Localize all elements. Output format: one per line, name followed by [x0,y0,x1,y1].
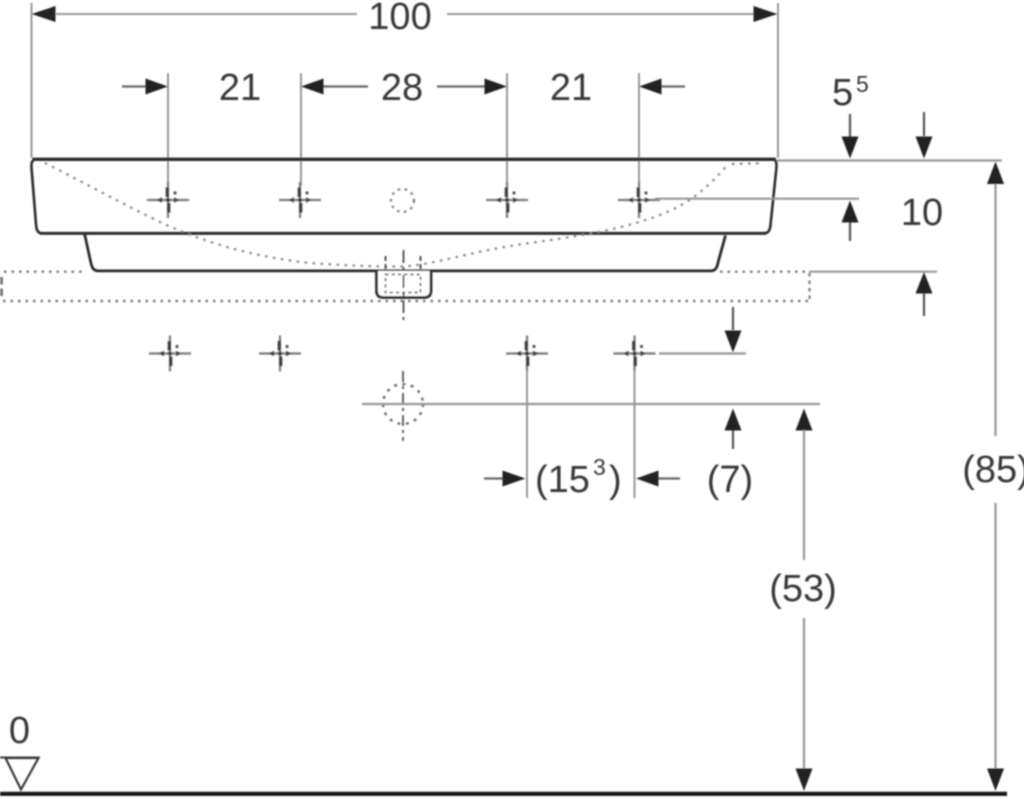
mounting level dotted line y=301 [3,300,810,302]
drain hole lower config: vertical centre line [402,371,404,441]
dimension 5.5: upper arrow pointing down [849,114,851,137]
basin: interior bowl profile tail along rim (right) [732,162,762,165]
dimension 21/28/21: extension line at x=168 [167,73,169,186]
tap hole cross 1 (lower row) [149,336,191,372]
svg-text:3: 3 [593,454,606,480]
dimension 100: left extension line [31,3,33,158]
zero level marker line [0,757,40,759]
tap hole cross 4 (upper row) [618,182,660,218]
basin: lower tier outline [85,234,726,271]
svg-text:5: 5 [832,72,853,114]
tap hole cross 2 (upper row) [279,182,321,218]
svg-text:100: 100 [368,0,431,38]
svg-text:10: 10 [901,192,943,234]
dimension (53): line lower segment [803,618,805,769]
svg-text:): ) [609,459,622,501]
dimension (15_3): right arrow pointing left with tail [658,477,680,479]
svg-text:5: 5 [856,71,869,97]
basin: first tier bottom edge [40,232,766,235]
tap hole cross 2 (lower row) [259,336,301,372]
reference line through drain hole centre y=404 [362,403,820,405]
svg-text:21: 21 [219,67,261,109]
mounting level dotted line y=272 right segment [720,271,809,273]
floor line [0,792,1007,796]
dimension 5.5: lower arrow pointing up [849,222,851,241]
dimension (53): top arrow pointing up [796,409,813,431]
dimension 10: lower arrow pointing up [923,293,925,316]
dimension (85): top arrow pointing up [987,162,1004,185]
dimension 21/28/21: extension line at x=301 [300,73,302,186]
reference line at mounting level y=271.7 (right) [809,271,937,273]
dimension (53): bottom arrow pointing down [796,769,813,792]
dimension 28: left arrow pointing left with tail [323,85,368,87]
dimension (85): line upper segment [994,184,996,436]
drain: outlet box [377,271,432,298]
dimension 100: dimension line right segment [447,13,754,15]
svg-text:28: 28 [381,67,423,109]
reference line at tap hole level y=198.7 [655,198,859,200]
mounting level dotted line y=272 left segment [4,271,86,273]
dimension 21/28/21: extension line at x=639 [638,73,640,186]
dimension (7): upper arrow pointing down [732,307,734,330]
basin: right side edge [765,160,776,233]
svg-text:(15: (15 [535,459,590,501]
extension line below lower cross 3 [526,370,528,498]
overflow hole (dashed circle, upper) [391,189,414,212]
drain: centre line [403,250,405,320]
svg-text:(85): (85) [962,449,1024,491]
dimension 21 left: arrow pointing right with tail [122,85,147,87]
tap hole cross 4 (lower row) [614,336,656,372]
dimension (85): line lower segment [994,503,996,769]
dimension (15_3): left arrow pointing right with tail [484,477,503,479]
dimension 21/28/21: extension line at x=507 [506,73,508,186]
dimension 28: right arrow pointing right with tail [437,85,485,87]
drain: hidden dashed sides above outlet [385,256,387,269]
svg-text:0: 0 [9,710,30,752]
zero level marker triangle [6,758,39,790]
tap hole cross 3 (upper row) [486,182,528,218]
dimension (85): bottom arrow pointing down [987,769,1004,792]
reference line at rim level y=160 (right) [777,159,1002,161]
dimension (53): line upper segment [803,430,805,560]
basin: left side edge [31,160,41,233]
reference line from lower cross 4 to the right y=353.5 [659,352,746,354]
basin: interior bowl profile (hidden line) [45,163,727,267]
drain hole lower config (dashed circle) [383,384,423,424]
svg-text:(7): (7) [707,459,753,501]
basin: top rim edge [33,158,776,161]
dimension 21 right: arrow pointing left with tail [661,85,685,87]
tap hole cross 3 (lower row) [506,336,548,372]
svg-text:(53): (53) [769,568,837,610]
dimension 100: right extension line [777,3,779,158]
dotted connector left edge [0,277,3,298]
dimension (7): lower arrow pointing up [732,430,734,449]
dotted connector right x=809 [808,273,810,300]
svg-text:21: 21 [550,67,592,109]
dimension 100: right arrow [754,6,778,22]
extension line below lower cross 4 [634,370,636,498]
tap hole cross 1 (upper row) [147,182,189,218]
dimension 10: upper arrow pointing down [923,112,925,136]
dimension 100: dimension line left segment [56,13,357,15]
dimension 100: left arrow [32,6,56,22]
drain: inner dashed detail [386,275,421,293]
